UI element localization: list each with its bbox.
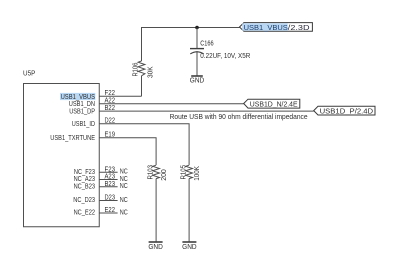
svg-text:R103: R103 [148, 165, 155, 180]
junction on VBUS net [195, 26, 199, 30]
wire pin D22 to R105 [99, 124, 189, 165]
resistor R106 [138, 61, 145, 76]
svg-text:USB1_ID: USB1_ID [72, 121, 95, 128]
svg-text:200: 200 [161, 169, 168, 181]
svg-text:GND: GND [182, 244, 197, 251]
svg-text:NC_B23: NC_B23 [74, 184, 95, 191]
wire pin F22 [99, 95, 141, 97]
wire vertical R106 branch [141, 27, 143, 96]
ground below R105 [182, 242, 197, 251]
svg-text:100K: 100K [194, 166, 201, 181]
svg-text:NC: NC [120, 169, 128, 176]
wire R103 to ground [155, 179, 157, 242]
svg-text:NC: NC [120, 183, 128, 190]
net flag USB1_VBUS/2.3D [240, 23, 313, 32]
wire pin B22 [99, 110, 313, 112]
svg-text:NC_A23: NC_A23 [74, 176, 95, 183]
svg-text:NC: NC [120, 176, 128, 183]
resistor R105 [186, 165, 193, 178]
wire pin E22 stub [99, 212, 117, 214]
svg-text:U5P: U5P [23, 71, 36, 78]
wire R105 to ground [188, 179, 190, 242]
svg-text:USB1_TXRTUNE: USB1_TXRTUNE [50, 135, 95, 142]
wire capacitor bottom lead [196, 51, 198, 76]
resistor R103 [153, 165, 160, 178]
svg-text:NC_E22: NC_E22 [74, 210, 95, 217]
wire pin A22 [99, 103, 243, 105]
wire pin B23 stub [99, 186, 117, 188]
svg-text:NC: NC [120, 209, 128, 216]
wire capacitor top lead [196, 28, 198, 49]
svg-text:USB1_VBUS/2.3D: USB1_VBUS/2.3D [244, 23, 311, 32]
svg-text:30K: 30K [147, 66, 154, 78]
ground below R103 [148, 242, 163, 251]
svg-text:USB1D_N/2.4E: USB1D_N/2.4E [250, 100, 298, 109]
U5P pin name USB1_VBUS (highlighted) [60, 93, 95, 101]
svg-text:USB1_DP: USB1_DP [69, 109, 95, 116]
wire pin E19 to R103 [99, 138, 156, 165]
capacitor C166 [190, 49, 204, 54]
net flag USB1D_N/2.4E [244, 99, 300, 108]
net flag USB1D_P/2.4D [314, 106, 375, 115]
svg-text:GND: GND [148, 244, 163, 251]
svg-text:R106: R106 [132, 63, 139, 77]
wire pin D23 stub [99, 200, 117, 202]
svg-text:R105: R105 [181, 165, 188, 180]
IC U5P [24, 84, 100, 227]
wire pin F23 stub [99, 171, 117, 173]
svg-text:NC_F23: NC_F23 [74, 169, 95, 176]
svg-text:GND: GND [190, 77, 205, 84]
ground below C166 [190, 76, 205, 84]
wire top horizontal VBUS [142, 27, 240, 29]
svg-text:Route USB with 90 ohm differen: Route USB with 90 ohm differential imped… [170, 112, 308, 121]
svg-text:USB1D_P/2.4D: USB1D_P/2.4D [320, 107, 374, 116]
svg-text:NC: NC [120, 197, 128, 204]
svg-text:NC_D23: NC_D23 [73, 197, 95, 204]
svg-text:USB1_VBUS: USB1_VBUS [61, 94, 96, 101]
svg-text:C166: C166 [200, 41, 213, 48]
wire pin A23 stub [99, 179, 117, 181]
svg-text:0.22UF, 10V, X5R: 0.22UF, 10V, X5R [200, 53, 250, 60]
svg-text:USB1_DN: USB1_DN [69, 101, 95, 108]
